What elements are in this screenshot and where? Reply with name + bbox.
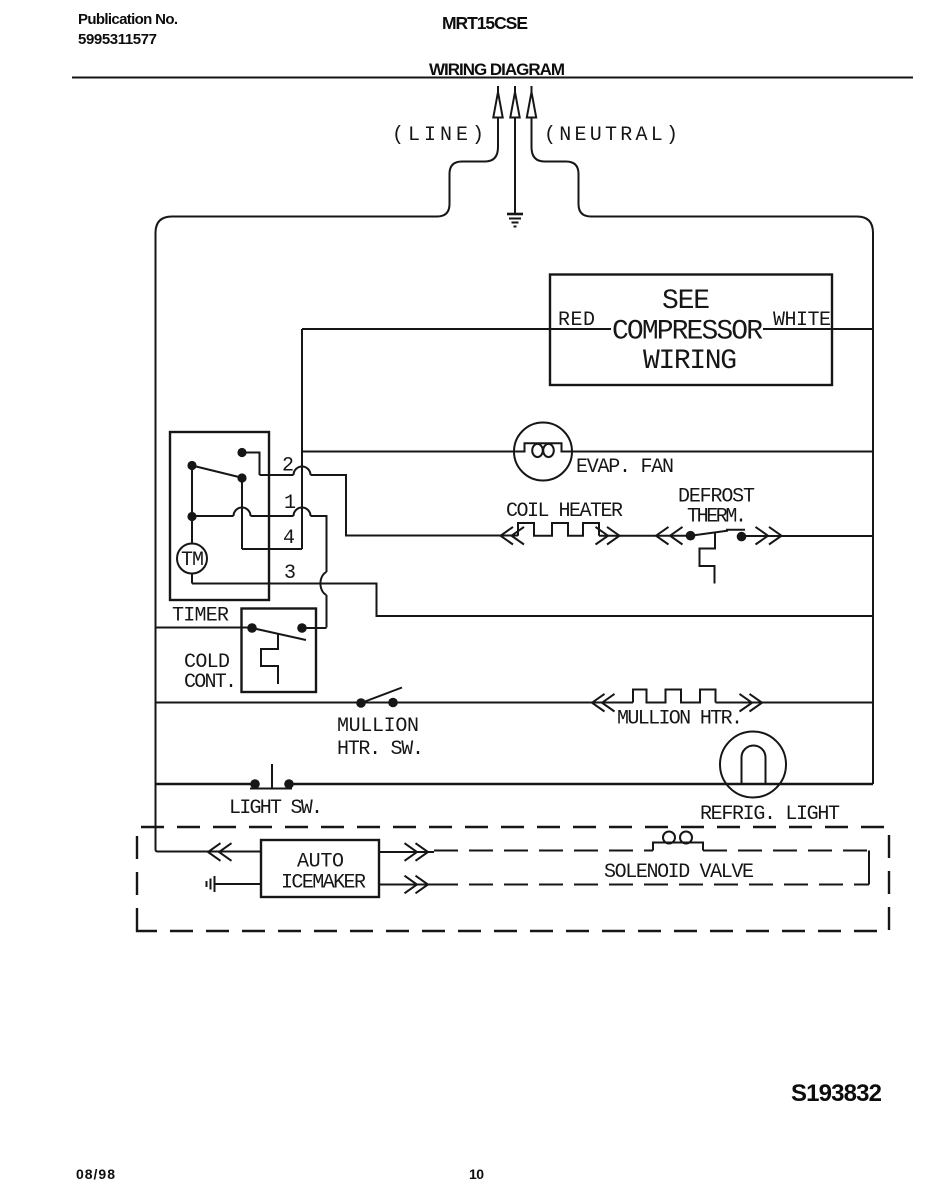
timer blade <box>192 466 245 479</box>
svg-text:TM: TM <box>181 549 204 572</box>
wire: white lead <box>763 328 873 330</box>
wire: timer pin2 row to defrost left dot <box>346 535 691 537</box>
wire 2: timer to coil heater <box>260 475 501 536</box>
timer contact dot pin2 <box>237 448 246 457</box>
svg-text:EVAP. FAN: EVAP. FAN <box>576 456 674 479</box>
resistor coil heater <box>518 523 599 536</box>
wire: common column <box>191 466 193 544</box>
wire: dashed to solenoid <box>434 850 653 852</box>
wire 4: riser to pin4 <box>242 548 302 550</box>
connector chevrons defrost left <box>656 527 683 545</box>
line arrow <box>493 86 502 118</box>
svg-text:LIGHT SW.: LIGHT SW. <box>229 797 323 820</box>
timer contact dot pin4 blade end <box>237 473 246 482</box>
wire: line arrow to top edge <box>437 118 498 217</box>
hop wire2 over riser <box>294 467 311 476</box>
ground <box>507 214 523 227</box>
svg-text:S193832: S193832 <box>791 1080 882 1107</box>
connector chevrons defrost right <box>756 527 782 545</box>
connector chevrons icemaker left <box>208 843 232 861</box>
wire: light switch row <box>156 783 874 786</box>
svg-text:TIMER: TIMER <box>172 605 229 628</box>
header rule <box>72 77 913 79</box>
motor M1 evap fan <box>514 423 572 481</box>
svg-text:(NEUTRAL): (NEUTRAL) <box>544 124 678 147</box>
wire: dashed bottom return <box>434 884 869 886</box>
svg-text:SOLENOID VALVE: SOLENOID VALVE <box>604 861 754 884</box>
connector chevrons coil heater left <box>501 527 525 545</box>
svg-text:REFRIG. LIGHT: REFRIG. LIGHT <box>700 803 840 826</box>
svg-text:COMPRESSOR: COMPRESSOR <box>612 317 763 348</box>
wire: evap fan row <box>302 451 514 453</box>
cold control box <box>242 609 317 693</box>
wire: blade drop to pin4 row <box>241 478 243 549</box>
connector chevrons mullion left <box>592 694 615 712</box>
compressor box U1 <box>550 275 832 386</box>
dashed icemaker kit box <box>137 827 889 931</box>
harness outline top/left/right <box>156 217 438 850</box>
wire: icemaker outputs <box>379 852 434 885</box>
defrost thermostat <box>686 530 747 584</box>
svg-text:08/98: 08/98 <box>76 1166 115 1182</box>
wire: cold control to timer pin1 <box>302 627 327 629</box>
resistor mullion heater <box>633 690 716 703</box>
wire: ground stem <box>514 118 516 214</box>
svg-text:SEE: SEE <box>662 286 710 317</box>
wire: row to cold control <box>156 627 253 629</box>
timer box <box>170 432 269 600</box>
svg-text:3: 3 <box>284 562 296 585</box>
timer contact dot pin1 <box>187 512 196 521</box>
auto icemaker box <box>261 840 379 897</box>
svg-text:Publication No.: Publication No. <box>78 11 178 28</box>
hop wire1 vertical over wire3 <box>320 572 326 595</box>
wire: solenoid return riser <box>868 851 870 885</box>
svg-text:WIRING DIAGRAM: WIRING DIAGRAM <box>429 60 565 79</box>
timer motor TM <box>177 544 207 574</box>
svg-text:(LINE): (LINE) <box>392 124 484 147</box>
neutral arrow <box>527 86 536 118</box>
cold control bellows <box>261 634 278 684</box>
hop wire1 over blade drop <box>234 508 251 517</box>
connector chevrons icemaker out bottom <box>405 876 429 894</box>
wire: red riser <box>301 329 303 549</box>
lamp refrig light <box>720 732 786 798</box>
svg-text:THERM.: THERM. <box>687 506 747 529</box>
light switch <box>250 779 260 789</box>
ground arrow <box>510 86 519 118</box>
wire: defrost to right edge <box>746 535 873 537</box>
timer contact dot common <box>187 461 196 470</box>
svg-text:HTR. SW.: HTR. SW. <box>337 738 424 761</box>
svg-text:4: 4 <box>283 527 295 550</box>
svg-text:MRT15CSE: MRT15CSE <box>442 13 528 33</box>
svg-text:5995311577: 5995311577 <box>78 31 157 48</box>
wire: pin2 jog <box>242 453 260 476</box>
wire: TM to row3 <box>191 574 193 584</box>
svg-text:MULLION HTR.: MULLION HTR. <box>617 708 743 731</box>
svg-text:MULLION: MULLION <box>337 715 419 738</box>
wire: neutral arrow to top edge <box>532 118 592 217</box>
wire 1: timer to cold control <box>192 516 327 628</box>
svg-text:COIL HEATER: COIL HEATER <box>506 500 623 523</box>
hop wire1 over riser <box>294 508 311 517</box>
wire: red lead <box>302 328 611 330</box>
svg-text:AUTO: AUTO <box>297 851 344 874</box>
svg-text:CONT.: CONT. <box>184 671 237 694</box>
cold control blade <box>252 628 306 640</box>
solenoid valve coil L1 <box>653 832 703 851</box>
ground icemaker <box>207 876 262 892</box>
mullion heater switch <box>356 698 366 708</box>
svg-text:10: 10 <box>469 1166 484 1182</box>
wire: mullion row <box>156 702 874 704</box>
wire 3: TM to right edge <box>192 584 873 617</box>
wire: solenoid to riser <box>703 850 869 852</box>
connector chevrons icemaker out top <box>405 843 429 861</box>
cold control contacts <box>247 623 257 633</box>
svg-text:WIRING: WIRING <box>643 346 737 377</box>
wire: left edge feed to icemaker <box>156 850 262 852</box>
connector chevrons mullion right <box>740 694 763 712</box>
connector chevrons coil heater right <box>596 527 620 545</box>
svg-text:ICEMAKER: ICEMAKER <box>281 872 366 895</box>
